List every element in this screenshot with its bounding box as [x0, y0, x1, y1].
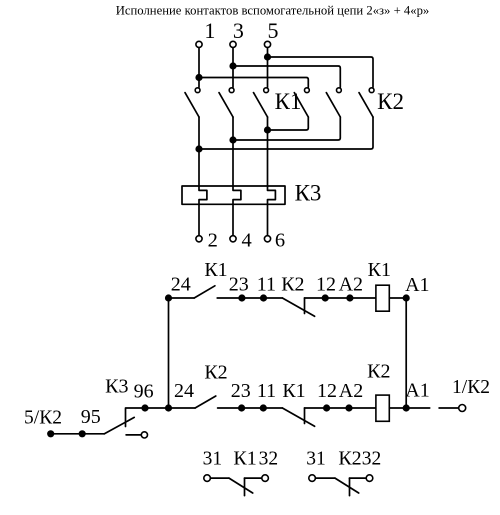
- aux contact K2 right wire: [350, 477, 367, 479]
- aux contact K2 left wire: [315, 477, 335, 479]
- thermal relay K3 box: [182, 186, 285, 204]
- svg-text:31: 31: [203, 448, 223, 469]
- svg-text:12: 12: [316, 273, 336, 295]
- wire row1 seg3: [305, 297, 376, 299]
- svg-text:11: 11: [257, 380, 276, 402]
- wire row2 to output: [406, 407, 430, 409]
- node 95 junction: [79, 430, 86, 437]
- svg-text:К2: К2: [338, 447, 361, 469]
- junction pole3/pole4: [264, 126, 271, 133]
- contact K3 NO throw terminal: [141, 432, 147, 438]
- node 5/K2 terminal: [47, 430, 54, 437]
- aux contact K2 NC bar: [349, 478, 351, 496]
- contact K2 NC blade row1: [282, 298, 314, 316]
- aux contact K2 terminal 31: [309, 475, 316, 482]
- K1 main contact pole3 fixed terminal: [264, 88, 269, 93]
- aux contact K1 right wire: [245, 477, 262, 479]
- wire row1 to NC contact: [264, 297, 283, 299]
- junction phase3: [229, 62, 236, 69]
- node A1 junction row2: [403, 404, 410, 411]
- svg-text:К1: К1: [233, 447, 256, 469]
- svg-text:К1: К1: [282, 380, 305, 402]
- wire row1 left: [169, 297, 195, 299]
- node A2 junction row1: [346, 294, 353, 301]
- terminal 5: [264, 41, 270, 47]
- svg-text:12: 12: [317, 380, 337, 402]
- wire phase5 drop: [267, 48, 269, 88]
- svg-text:4: 4: [241, 230, 251, 252]
- K1 main contact pole1 fixed terminal: [195, 88, 200, 93]
- wire row2 seg3: [305, 407, 376, 409]
- junction pole1/pole6: [195, 145, 202, 152]
- svg-text:А1: А1: [405, 380, 429, 402]
- junction phase5: [264, 53, 271, 60]
- svg-text:К2: К2: [367, 361, 390, 383]
- wire riser left: [168, 298, 170, 408]
- contact K1 NC blade row2: [282, 408, 314, 426]
- thermal relay K3 heater phase1: [199, 117, 207, 236]
- wire row1 seg2: [217, 297, 263, 299]
- svg-text:96: 96: [134, 380, 154, 402]
- aux contact K2 NC blade: [335, 478, 359, 493]
- junction pole2/pole5: [229, 136, 236, 143]
- node A2 junction row2: [345, 404, 352, 411]
- wire 5/K2 to contact: [51, 433, 104, 435]
- thermal relay K3 heater phase5: [268, 117, 276, 236]
- svg-text:32: 32: [362, 448, 382, 469]
- K2 pole4 blade: [294, 93, 308, 117]
- svg-text:23: 23: [229, 273, 249, 295]
- coil K2: [376, 395, 389, 421]
- terminal 4: [230, 236, 236, 242]
- K2 pole5 blade: [326, 93, 340, 117]
- terminal 1: [196, 41, 202, 47]
- svg-text:К1: К1: [275, 89, 302, 114]
- K2 pole6 blade: [359, 93, 373, 117]
- thermal relay K3 heater phase3: [233, 117, 241, 236]
- wire K2 pole5 crossover to phase3 output: [233, 117, 340, 140]
- wire row2 coil to A1: [389, 407, 406, 409]
- node 11 junction row1: [260, 294, 267, 301]
- svg-text:К2: К2: [204, 362, 227, 384]
- svg-text:6: 6: [275, 230, 285, 252]
- wire row2 seg2: [218, 407, 264, 409]
- aux contact K1 left wire: [210, 477, 229, 479]
- svg-text:24: 24: [171, 273, 191, 295]
- K1 main contact pole2 fixed terminal: [229, 88, 234, 93]
- K2 main contact pole6 fixed terminal: [369, 88, 374, 93]
- svg-text:А1: А1: [405, 274, 429, 296]
- contact K1 NC bar row2: [304, 408, 306, 424]
- svg-text:Исполнение контактов вспомогат: Исполнение контактов вспомогательной цеп…: [116, 4, 430, 18]
- svg-text:К1: К1: [368, 259, 391, 281]
- node 96 junction: [141, 404, 148, 411]
- node 12 junction row1: [322, 294, 329, 301]
- svg-text:24: 24: [174, 380, 194, 402]
- terminal 1/K2: [459, 405, 466, 412]
- wire row2 to NC contact: [263, 407, 282, 409]
- svg-text:А2: А2: [339, 380, 363, 402]
- contact K3 NO throw wire: [126, 434, 141, 436]
- node 23 junction row1: [238, 294, 245, 301]
- wire riser right A1: [405, 298, 407, 408]
- K1 pole2 blade: [219, 93, 233, 117]
- K2 main contact pole5 fixed terminal: [337, 88, 342, 93]
- svg-text:11: 11: [257, 273, 276, 295]
- svg-text:К3: К3: [295, 181, 322, 206]
- svg-text:3: 3: [233, 18, 244, 43]
- coil K1: [376, 285, 389, 311]
- K2 main contact pole4 fixed terminal: [305, 88, 310, 93]
- node 24 junction row2: [165, 404, 172, 411]
- aux contact K1 NC blade: [229, 478, 253, 493]
- aux contact K1 terminal 32: [262, 475, 269, 482]
- wire K2 pole6 crossover to phase1 output: [199, 117, 373, 149]
- aux contact K1 NC bar: [244, 478, 246, 496]
- wire phase3 drop: [232, 48, 234, 88]
- node 24 junction row1: [165, 294, 172, 301]
- terminal 6: [264, 236, 270, 242]
- svg-text:5/К2: 5/К2: [24, 408, 62, 429]
- node 11 junction row2: [260, 404, 267, 411]
- terminal 2: [196, 236, 202, 242]
- terminal 3: [230, 41, 236, 47]
- svg-text:1: 1: [204, 18, 215, 43]
- svg-text:К3: К3: [105, 375, 128, 397]
- node 12 junction row2: [323, 404, 330, 411]
- contact K3 NC bar: [126, 408, 145, 427]
- wire bus phase3 to K2 pole5: [233, 66, 340, 87]
- wire phase1 drop: [198, 48, 200, 88]
- svg-text:2: 2: [208, 230, 218, 252]
- wire row2 left: [145, 407, 195, 409]
- contact K2 NC bar row1: [304, 298, 306, 314]
- svg-text:К2: К2: [281, 274, 304, 296]
- svg-text:23: 23: [231, 380, 251, 402]
- svg-text:31: 31: [306, 448, 326, 469]
- contact K1 NO blade row1: [194, 286, 215, 298]
- wire bus phase1 to K2 pole4: [199, 78, 308, 88]
- contact K3 NC blade: [104, 417, 134, 434]
- K1 pole1 blade: [185, 93, 199, 117]
- svg-text:5: 5: [268, 18, 279, 43]
- K1 pole3 blade: [254, 93, 268, 117]
- svg-text:К2: К2: [377, 89, 404, 114]
- junction phase1: [195, 74, 202, 81]
- aux contact K2 terminal 32: [366, 475, 373, 482]
- node 23 junction row2: [238, 404, 245, 411]
- wire output stub: [439, 407, 459, 409]
- contact K2 NO blade row2: [195, 396, 216, 408]
- svg-text:К1: К1: [204, 259, 227, 281]
- svg-text:1/К2: 1/К2: [452, 377, 490, 398]
- aux contact K1 terminal 31: [204, 475, 211, 482]
- wire row1 coil to A1: [389, 297, 406, 299]
- wire bus phase5 to K2 pole6: [268, 57, 374, 87]
- svg-text:95: 95: [81, 406, 101, 428]
- svg-text:32: 32: [259, 448, 279, 469]
- node A1 junction row1: [403, 294, 410, 301]
- wire K2 pole4 crossover to phase5 output: [268, 117, 309, 130]
- svg-text:А2: А2: [339, 273, 363, 295]
